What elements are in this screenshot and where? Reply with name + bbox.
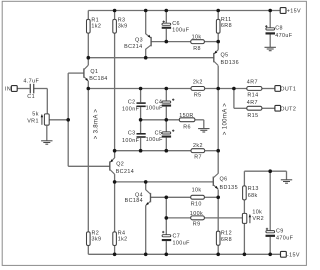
junction dots R10 row [165, 196, 221, 200]
svg-text:R6: R6 [183, 125, 191, 131]
svg-text:R7: R7 [194, 154, 202, 160]
svg-text:Q2: Q2 [116, 162, 124, 168]
transistor Q3 BC214 [124, 34, 151, 50]
capacitor C8 470uF [265, 25, 293, 39]
capacitor C4 100uF [146, 99, 175, 112]
svg-text:4R7: 4R7 [247, 100, 258, 106]
resistor R10 10k [191, 187, 205, 207]
svg-text:C2: C2 [128, 99, 136, 105]
wire R9 row to VR2 [166, 217, 242, 219]
capacitor C9 470uF [266, 228, 294, 242]
wire C2/C3 column [140, 89, 142, 151]
svg-text:3k9: 3k9 [92, 236, 102, 242]
capacitor C2 100nF [122, 99, 146, 112]
resistor R12 6R8 [216, 231, 232, 246]
svg-text:68k: 68k [248, 193, 258, 199]
wire feedback mid row (C2/C4 bottoms to R6) [141, 120, 204, 128]
terminal OUT1 [275, 86, 296, 93]
svg-text:470uF: 470uF [276, 236, 294, 242]
svg-text:VR2: VR2 [252, 216, 264, 222]
svg-text:C5: C5 [155, 130, 163, 136]
svg-text:Q5: Q5 [221, 52, 229, 58]
wire input bases bus (VR1 wiper to Q1/Q2 bases) [49, 73, 68, 166]
capacitor C3 100nF [122, 130, 146, 144]
svg-text:C6: C6 [172, 21, 180, 27]
svg-text:100uF: 100uF [173, 241, 191, 247]
svg-text:BC214: BC214 [116, 169, 134, 175]
svg-text:Q6: Q6 [220, 177, 228, 183]
svg-text:R5: R5 [194, 93, 202, 99]
svg-text:R10: R10 [191, 201, 202, 207]
svg-text:100uF: 100uF [146, 137, 164, 143]
wire Q2 collector row (Q6 base row) [115, 181, 214, 183]
svg-text:C8: C8 [275, 26, 283, 32]
svg-text:1k2: 1k2 [91, 23, 101, 29]
wire -15V bottom bus [88, 253, 280, 255]
svg-text:2k2: 2k2 [193, 143, 203, 149]
node label 3.8mA current [93, 109, 99, 140]
svg-text:10k: 10k [192, 187, 202, 193]
resistor R2 3k9 [87, 230, 102, 245]
ground (right mid rail) [281, 180, 292, 183]
capacitor C6 100uF [162, 21, 190, 34]
wire Q1 emitter row to output [88, 88, 275, 90]
svg-text:10k: 10k [252, 210, 262, 216]
svg-text:C1: C1 [27, 94, 35, 100]
terminal IN [5, 86, 17, 93]
capacitor C7 100uF [162, 231, 190, 247]
junction dots top bus [113, 9, 272, 13]
svg-text:4R7: 4R7 [247, 80, 258, 86]
wire Q2 emitter row (R7 row) [115, 150, 219, 152]
transistor Q4 BC184 [125, 190, 151, 206]
wire C8 / C9 column [269, 11, 271, 255]
transistor Q1 BC184 [84, 65, 108, 82]
junction dots Q3 base row [165, 40, 221, 44]
resistor R6 150R [179, 113, 195, 130]
svg-text:C7: C7 [173, 234, 181, 240]
svg-text:> 100mA >: > 100mA > [222, 103, 228, 135]
svg-text:R14: R14 [247, 92, 258, 98]
wire R13 top row to ground branch [244, 171, 286, 179]
svg-text:Q1: Q1 [90, 69, 98, 75]
ground (C8) [265, 47, 276, 50]
svg-text:OUT1: OUT1 [280, 87, 296, 93]
junction dots Q6 base row [113, 180, 148, 184]
svg-text:R13: R13 [248, 186, 259, 192]
resistor R5 2k2 [191, 79, 205, 98]
wire node A row (Q1 collector / Q5 base) [88, 57, 214, 59]
svg-text:10k: 10k [192, 35, 202, 41]
transistor Q6 BD135 [213, 173, 238, 191]
junction dots mid feedback row [139, 118, 168, 122]
svg-text:R9: R9 [193, 222, 201, 228]
wire Q1 base [68, 72, 84, 74]
svg-text:6R8: 6R8 [221, 237, 232, 243]
wire R3 column / 3.8mA rail / R4 column [114, 11, 116, 255]
svg-text:BC214: BC214 [124, 44, 142, 50]
resistor R14 4R7 [247, 80, 262, 99]
svg-text:BD136: BD136 [221, 60, 239, 66]
potentiometer VR1 5k [27, 112, 49, 126]
junction dots node A row [87, 56, 148, 60]
svg-text:1k2: 1k2 [118, 236, 128, 242]
svg-text:BD135: BD135 [220, 185, 238, 191]
node label 100mA current [222, 103, 228, 135]
svg-text:100uF: 100uF [146, 106, 164, 112]
resistor R8 10k [191, 35, 205, 52]
svg-text:100nF: 100nF [122, 138, 140, 144]
svg-text:C3: C3 [128, 130, 136, 136]
svg-text:2k2: 2k2 [193, 79, 203, 85]
junction dots Q2 emitter row [113, 149, 220, 153]
svg-text:C9: C9 [276, 228, 284, 234]
wire +15V top bus [88, 10, 280, 12]
wire IN to C1 to VR1 [17, 89, 47, 114]
svg-text:-15V: -15V [287, 252, 300, 258]
svg-text:6R8: 6R8 [221, 23, 232, 29]
svg-text:Q3: Q3 [135, 38, 143, 44]
svg-text:4.7uF: 4.7uF [23, 79, 39, 85]
junction dot R13 row [268, 169, 272, 173]
resistor R9 100k [190, 211, 205, 228]
transistor Q5 BD136 [214, 50, 239, 66]
resistor R7 2k2 [191, 143, 205, 160]
capacitor C5 100uF [146, 130, 175, 143]
ground (VR1) [41, 125, 52, 144]
svg-text:3k9: 3k9 [118, 23, 128, 29]
wire R11 / output rail / R12 column [217, 11, 219, 255]
junction dots Q1 emitter row [87, 87, 236, 91]
resistor R4 1k2 [113, 230, 128, 245]
wire OUT2 branch [234, 89, 275, 109]
wire C6/C4/C5/C7 column [165, 11, 167, 255]
svg-text:100nF: 100nF [122, 107, 140, 113]
ground (R6) [198, 129, 209, 132]
svg-text:+15V: +15V [287, 9, 301, 15]
svg-text:100k: 100k [190, 211, 203, 217]
svg-text:470uF: 470uF [275, 33, 293, 39]
wire Q2 base [68, 165, 110, 167]
svg-text:> 3.8mA >: > 3.8mA > [93, 109, 99, 140]
svg-text:BC184: BC184 [125, 198, 143, 204]
svg-text:BC184: BC184 [89, 76, 107, 82]
svg-text:R15: R15 [247, 113, 258, 119]
svg-text:IN: IN [5, 87, 11, 93]
wire R1 column (leads and Q1 verticals, R2 column) [87, 11, 89, 255]
resistor R13 68k [243, 186, 259, 200]
svg-text:R8: R8 [193, 46, 201, 52]
junction dot VR1 wiper [66, 118, 70, 122]
potentiometer VR2 10k [242, 210, 264, 224]
svg-text:150R: 150R [179, 113, 194, 119]
wire Q3 base row (C6 bottom to R8 to R11 bottom) [151, 41, 218, 43]
resistor R3 3k9 [113, 17, 128, 33]
svg-text:R12: R12 [221, 231, 232, 237]
svg-text:VR1: VR1 [27, 118, 39, 124]
svg-text:OUT2: OUT2 [280, 106, 296, 112]
junction dots bottom bus [113, 253, 272, 257]
resistor R15 4R7 [247, 100, 262, 119]
terminal OUT2 [275, 105, 296, 112]
terminal -15V [281, 251, 300, 258]
terminal +15V [280, 8, 301, 15]
junction dot R9 row [165, 216, 169, 220]
svg-text:C4: C4 [155, 99, 163, 105]
resistor R11 6R8 [216, 17, 232, 33]
svg-text:100uF: 100uF [172, 27, 190, 33]
wire Q4 base row (R10 row) [151, 196, 219, 198]
capacitor C1 4.7uF [23, 79, 39, 101]
wire R13/VR2 column [243, 171, 245, 254]
svg-text:5k: 5k [32, 112, 39, 118]
transistor Q2 BC214 [110, 158, 134, 175]
resistor R1 1k2 [87, 17, 102, 33]
wire Q3/Q4 emitter column [145, 11, 147, 255]
